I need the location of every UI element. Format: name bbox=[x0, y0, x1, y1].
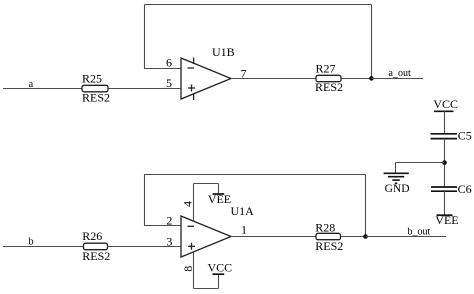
wire: C5 to junction to C6 bbox=[444, 139, 446, 187]
ground GND bars bbox=[384, 173, 409, 183]
wire: U1A feedback top horizontal bbox=[145, 174, 366, 176]
svg-text:RES2: RES2 bbox=[315, 80, 343, 94]
op-amp U1A plus input sign bbox=[188, 243, 195, 250]
svg-text:RES2: RES2 bbox=[82, 249, 110, 263]
wire: U1B feedback right vertical bbox=[371, 5, 373, 79]
power symbol VEE (U1A) bar bbox=[213, 193, 225, 195]
svg-text:b_out: b_out bbox=[408, 227, 431, 238]
ground GND stub bbox=[395, 163, 397, 173]
wire: input a segment bbox=[3, 88, 82, 90]
resistor R28 bbox=[316, 233, 341, 239]
svg-text:R27: R27 bbox=[316, 61, 336, 75]
wire: R27 to junction bbox=[341, 78, 372, 80]
wire: U1A output to R28 bbox=[231, 236, 316, 238]
capacitor C5 bbox=[431, 134, 458, 139]
svg-text:4: 4 bbox=[180, 201, 194, 207]
svg-text:5: 5 bbox=[166, 76, 172, 90]
svg-text:R25: R25 bbox=[82, 71, 102, 85]
svg-text:1: 1 bbox=[241, 223, 247, 237]
svg-text:RES2: RES2 bbox=[82, 91, 110, 105]
svg-text:6: 6 bbox=[166, 56, 172, 70]
wire: R26 to U1A pin3 bbox=[108, 246, 182, 248]
wire: U1A pin4 stub vertical bbox=[193, 184, 195, 222]
resistor R26 bbox=[84, 243, 108, 250]
wire: pin8 to VCC horizontal bbox=[194, 288, 219, 290]
wire: VCC stub up bbox=[218, 274, 220, 288]
svg-text:2: 2 bbox=[166, 213, 172, 227]
op-amp U1A triangle bbox=[181, 216, 231, 257]
svg-text:VCC: VCC bbox=[433, 97, 458, 111]
wire: U1B pin6 input bbox=[145, 68, 182, 70]
wire: R28 to junction bbox=[341, 236, 366, 238]
junction node power mid bbox=[442, 160, 447, 165]
wire: b_out stub bbox=[366, 236, 447, 238]
op-amp U1A minus input sign bbox=[188, 225, 195, 227]
svg-text:a: a bbox=[29, 79, 34, 90]
svg-text:C5: C5 bbox=[458, 128, 472, 142]
svg-text:GND: GND bbox=[385, 183, 410, 195]
op-amp U1B bottom power stub bbox=[193, 94, 195, 101]
svg-text:VEE: VEE bbox=[208, 192, 231, 206]
resistor R25 bbox=[82, 85, 108, 92]
power symbol VEE rail bar bbox=[437, 214, 453, 216]
svg-text:U1B: U1B bbox=[212, 45, 235, 59]
wire: U1B output to R27 bbox=[231, 78, 316, 80]
junction node b_out bbox=[363, 234, 368, 239]
svg-text:C6: C6 bbox=[458, 182, 472, 196]
wire: input b segment bbox=[3, 246, 84, 248]
svg-text:VEE: VEE bbox=[435, 213, 458, 227]
wire: pin4 to VEE horizontal bbox=[194, 183, 219, 185]
wire: U1A pin2 input bbox=[145, 225, 182, 227]
wire: U1B feedback top horizontal bbox=[145, 4, 372, 6]
wire: U1A feedback right vertical bbox=[365, 175, 367, 237]
wire: R25 to U1B pin5 bbox=[108, 88, 181, 90]
svg-text:U1A: U1A bbox=[231, 204, 255, 218]
svg-text:b: b bbox=[28, 237, 33, 248]
wire: VEE stub down bbox=[218, 184, 220, 195]
power symbol VCC rail bar bbox=[434, 110, 454, 112]
op-amp U1B plus input sign bbox=[188, 85, 195, 92]
wire: junction to GND bbox=[396, 162, 445, 164]
junction node a_out bbox=[369, 76, 374, 81]
svg-text:7: 7 bbox=[241, 67, 247, 81]
svg-text:R26: R26 bbox=[82, 229, 102, 243]
svg-text:a_out: a_out bbox=[389, 68, 411, 79]
svg-text:VCC: VCC bbox=[208, 261, 233, 275]
svg-text:3: 3 bbox=[166, 234, 172, 248]
resistor R27 bbox=[316, 75, 341, 81]
power symbol VCC (U1A) bar bbox=[212, 273, 224, 275]
capacitor C6 bbox=[431, 187, 457, 191]
wire: U1A feedback left vertical bbox=[144, 174, 146, 226]
wire: C6 to VEE bbox=[444, 191, 446, 215]
op-amp U1B top power stub bbox=[193, 58, 195, 65]
op-amp U1B minus input sign bbox=[188, 67, 195, 69]
svg-text:8: 8 bbox=[181, 266, 195, 272]
wire: U1A pin8 stub vertical bbox=[193, 252, 195, 289]
wire: a_out stub bbox=[372, 78, 424, 80]
op-amp U1B triangle bbox=[181, 58, 231, 99]
svg-text:RES2: RES2 bbox=[315, 239, 343, 253]
wire: VCC bar to C5 bbox=[444, 111, 446, 134]
svg-text:R28: R28 bbox=[315, 220, 335, 234]
wire: U1B feedback left vertical bbox=[144, 5, 146, 70]
